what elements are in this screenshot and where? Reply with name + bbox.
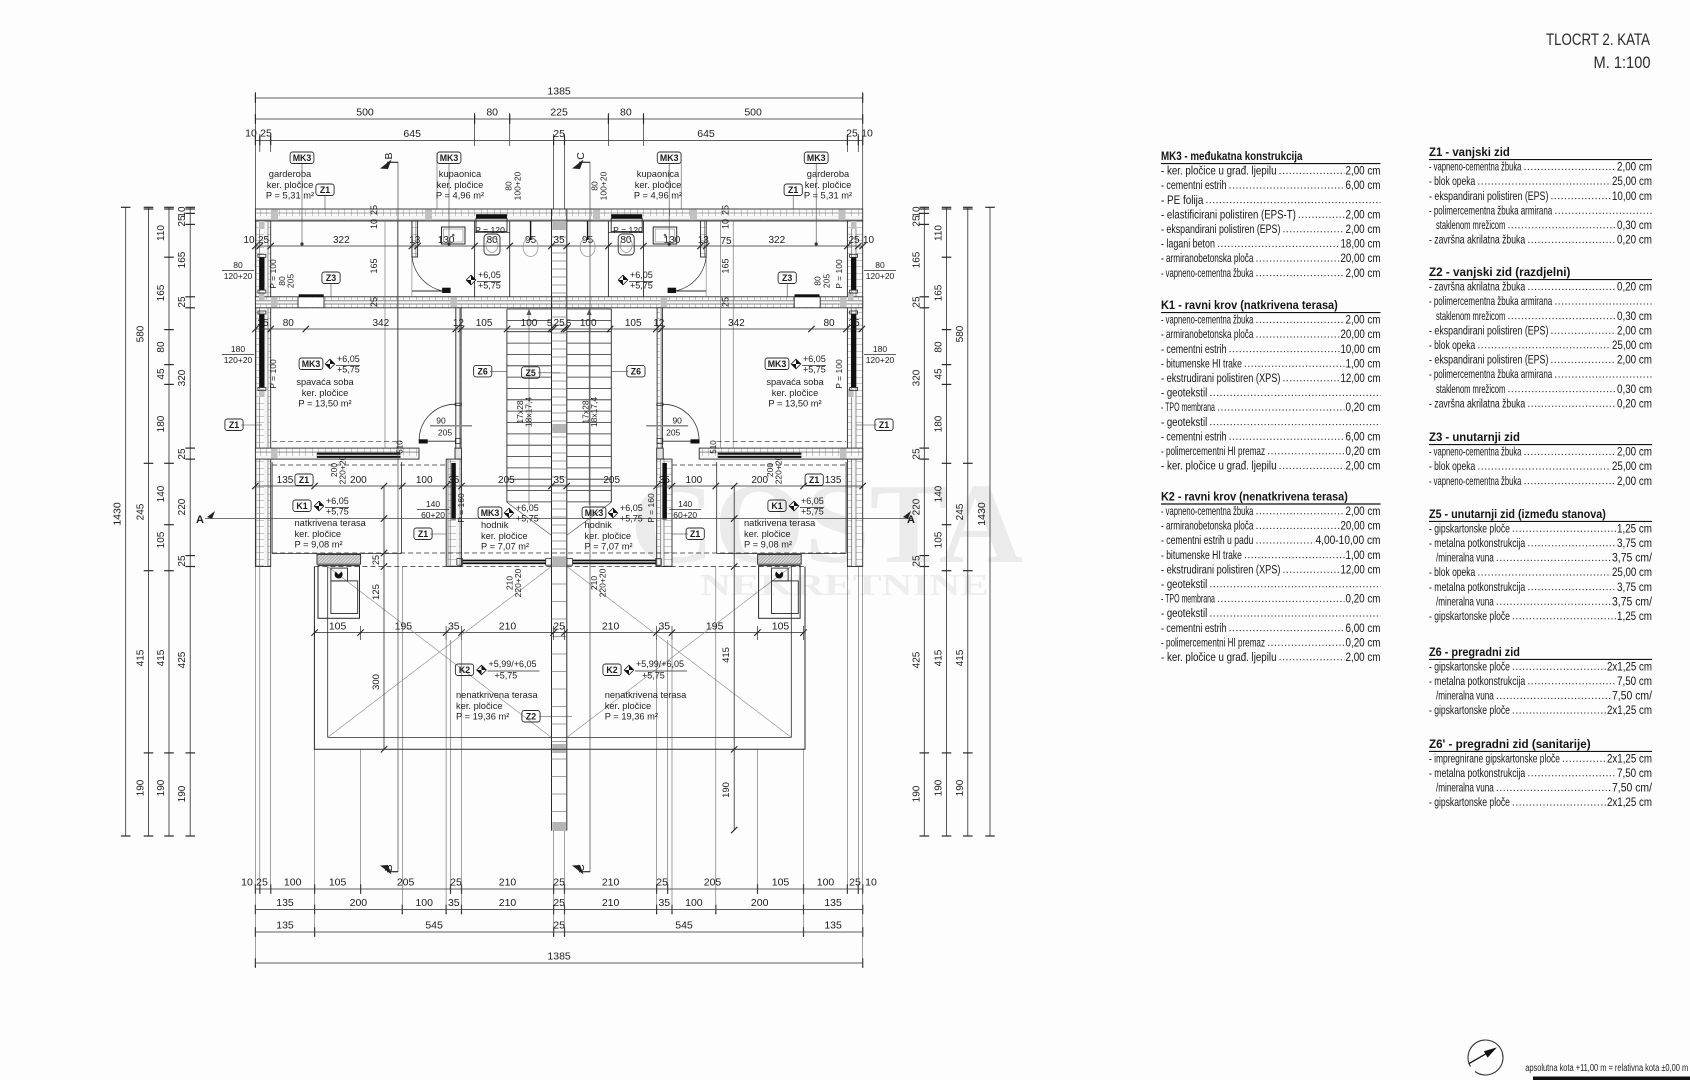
svg-text:Z1 - vanjski zid: Z1 - vanjski zid <box>1429 145 1510 159</box>
svg-text:K1 - ravni krov (natkrivena te: K1 - ravni krov (natkrivena terasa) <box>1161 298 1338 312</box>
svg-text:2,00 cm: 2,00 cm <box>1346 222 1381 236</box>
svg-text:- armiranobetonska ploča: - armiranobetonska ploča <box>1161 251 1254 265</box>
svg-text:25: 25 <box>260 128 272 140</box>
svg-text:25: 25 <box>846 128 858 140</box>
svg-text:342: 342 <box>728 318 745 329</box>
svg-text:105: 105 <box>625 318 642 329</box>
svg-text:135: 135 <box>276 920 294 932</box>
svg-text:P = 19,36 m²: P = 19,36 m² <box>605 712 658 722</box>
svg-text:staklenom mrežicom: staklenom mrežicom <box>1436 309 1505 323</box>
svg-text:M. 1:100: M. 1:100 <box>1594 54 1651 72</box>
svg-text:20,00 cm: 20,00 cm <box>1341 519 1381 533</box>
svg-text:20,00 cm: 20,00 cm <box>1341 327 1381 341</box>
svg-text:ker. pločice: ker. pločice <box>302 388 349 398</box>
svg-text:2,00 cm: 2,00 cm <box>1346 266 1381 280</box>
svg-text:165: 165 <box>911 251 922 268</box>
svg-text:P = 4,96 m²: P = 4,96 m² <box>436 191 484 201</box>
svg-text:90: 90 <box>436 416 446 426</box>
svg-text:210: 210 <box>499 620 517 632</box>
svg-text:- elastificirani polistiren (E: - elastificirani polistiren (EPS-T) <box>1161 207 1296 221</box>
svg-text:- završna akrilatna žbuka: - završna akrilatna žbuka <box>1429 233 1525 247</box>
svg-text:+6,05: +6,05 <box>630 270 653 280</box>
svg-text:510: 510 <box>396 440 405 454</box>
svg-text:135: 135 <box>277 475 294 486</box>
svg-text:35: 35 <box>448 897 460 909</box>
svg-text:45: 45 <box>156 368 167 380</box>
svg-text:P = 120: P = 120 <box>613 225 643 235</box>
svg-text:140: 140 <box>678 499 692 509</box>
svg-text:Z5: Z5 <box>526 368 536 378</box>
svg-text:1,25 cm: 1,25 cm <box>1617 609 1652 623</box>
svg-text:100: 100 <box>415 897 433 909</box>
svg-text:100: 100 <box>580 318 597 329</box>
svg-text:+6,05: +6,05 <box>516 503 539 513</box>
svg-text:140: 140 <box>426 499 440 509</box>
svg-text:2,00 cm: 2,00 cm <box>1617 474 1652 488</box>
svg-text:+5,99/+6,05: +5,99/+6,05 <box>489 659 537 669</box>
svg-text:322: 322 <box>768 235 785 246</box>
svg-text:MK3: MK3 <box>768 359 787 369</box>
svg-text:ker. pločice: ker. pločice <box>744 529 791 539</box>
svg-text:P = 19,36 m²: P = 19,36 m² <box>456 712 509 722</box>
svg-text:Z3 - unutarnji zid: Z3 - unutarnji zid <box>1429 430 1520 444</box>
svg-text:/mineralna vuna: /mineralna vuna <box>1436 781 1494 795</box>
svg-text:1,00 cm: 1,00 cm <box>1346 548 1381 562</box>
svg-text:190: 190 <box>721 782 732 798</box>
svg-text:/mineralna vuna: /mineralna vuna <box>1436 594 1494 608</box>
svg-text:5: 5 <box>566 318 571 329</box>
svg-text:25: 25 <box>553 897 565 909</box>
svg-text:- geotekstil: - geotekstil <box>1161 577 1207 591</box>
svg-text:- lagani beton: - lagani beton <box>1161 237 1215 251</box>
svg-text:140: 140 <box>934 485 945 502</box>
svg-text:hodnik: hodnik <box>481 520 509 530</box>
svg-text:220: 220 <box>911 498 922 515</box>
svg-text:100: 100 <box>685 897 703 909</box>
svg-text:2,00 cm: 2,00 cm <box>1617 445 1652 459</box>
svg-text:3,75 cm/: 3,75 cm/ <box>1612 551 1653 565</box>
svg-text:- geotekstil: - geotekstil <box>1161 386 1207 400</box>
svg-text:80: 80 <box>620 107 632 119</box>
svg-text:Z1: Z1 <box>229 420 239 430</box>
svg-text:125: 125 <box>371 584 382 600</box>
svg-text:2,00 cm: 2,00 cm <box>1346 164 1381 178</box>
svg-text:120+20: 120+20 <box>866 355 895 365</box>
svg-text:1430: 1430 <box>112 502 124 526</box>
svg-text:MK3 - međukatna konstrukcija: MK3 - međukatna konstrukcija <box>1161 149 1302 163</box>
svg-text:+5,75: +5,75 <box>326 507 349 517</box>
svg-text:2,00 cm: 2,00 cm <box>1346 207 1381 221</box>
svg-text:- ekspandirani polistiren (EPS: - ekspandirani polistiren (EPS) <box>1429 353 1548 367</box>
svg-text:+5,75: +5,75 <box>630 281 653 291</box>
svg-text:- TPO membrana: - TPO membrana <box>1161 400 1215 414</box>
svg-text:- završna akrilatna žbuka: - završna akrilatna žbuka <box>1429 396 1525 410</box>
svg-text:205: 205 <box>438 428 452 438</box>
svg-text:+5,75: +5,75 <box>642 671 665 681</box>
svg-text:100: 100 <box>817 877 835 889</box>
svg-text:+6,05: +6,05 <box>337 354 360 364</box>
svg-text:- gipskartonske ploče: - gipskartonske ploče <box>1429 659 1510 673</box>
svg-text:Z3: Z3 <box>326 273 336 283</box>
svg-text:P = 5,31 m²: P = 5,31 m² <box>266 191 314 201</box>
svg-text:ker. pločice: ker. pločice <box>585 531 632 541</box>
svg-text:- polimercementna žbuka armira: - polimercementna žbuka armirana <box>1429 367 1552 381</box>
svg-text:P = 4,96 m²: P = 4,96 m² <box>634 191 682 201</box>
svg-text:35: 35 <box>849 318 861 329</box>
svg-text:25,00 cm: 25,00 cm <box>1612 565 1652 579</box>
svg-text:100+20: 100+20 <box>513 171 523 200</box>
svg-text:Z2 - vanjski zid (razdjelni): Z2 - vanjski zid (razdjelni) <box>1429 265 1570 279</box>
svg-text:110: 110 <box>156 225 167 241</box>
svg-text:35: 35 <box>554 235 566 246</box>
svg-text:Z2: Z2 <box>526 712 536 722</box>
svg-text:P = 120: P = 120 <box>475 225 505 235</box>
svg-text:MK3: MK3 <box>807 153 826 163</box>
svg-text:+5,75: +5,75 <box>803 365 826 375</box>
svg-text:- blok opeka: - blok opeka <box>1429 174 1475 188</box>
svg-text:6,00 cm: 6,00 cm <box>1346 178 1381 192</box>
svg-text:- vapneno-cementna žbuka: - vapneno-cementna žbuka <box>1161 313 1254 327</box>
svg-text:ker. pločice: ker. pločice <box>605 701 652 711</box>
svg-text:P = 160: P = 160 <box>456 493 466 523</box>
svg-text:100: 100 <box>416 475 433 486</box>
svg-text:180: 180 <box>873 344 887 354</box>
svg-text:7,50 cm/: 7,50 cm/ <box>1612 781 1653 795</box>
svg-text:- vapneno-cementna žbuka: - vapneno-cementna žbuka <box>1429 474 1522 488</box>
svg-text:10: 10 <box>721 219 731 229</box>
svg-text:P = 160: P = 160 <box>646 493 656 523</box>
svg-text:MK3: MK3 <box>302 359 321 369</box>
svg-text:P = 100: P = 100 <box>268 359 278 389</box>
svg-text:320: 320 <box>177 369 188 386</box>
svg-text:P = 7,07 m²: P = 7,07 m² <box>481 542 529 552</box>
svg-text:0,30 cm: 0,30 cm <box>1617 309 1652 323</box>
svg-text:80: 80 <box>283 318 295 329</box>
svg-text:415: 415 <box>156 649 167 666</box>
svg-text:- bitumenske HI trake: - bitumenske HI trake <box>1161 548 1242 562</box>
svg-text:0,30 cm: 0,30 cm <box>1617 382 1652 396</box>
svg-text:+5,75: +5,75 <box>337 365 360 375</box>
svg-text:25: 25 <box>177 555 188 567</box>
svg-text:25: 25 <box>369 205 379 215</box>
svg-text:100: 100 <box>686 475 703 486</box>
svg-text:- TPO membrana: - TPO membrana <box>1161 592 1215 606</box>
svg-text:+5,75: +5,75 <box>620 514 643 524</box>
svg-text:105: 105 <box>476 318 493 329</box>
svg-text:2,00 cm: 2,00 cm <box>1617 323 1652 337</box>
svg-text:K1: K1 <box>771 501 782 511</box>
svg-text:80: 80 <box>486 107 498 119</box>
svg-text:500: 500 <box>356 107 374 119</box>
svg-text:13: 13 <box>409 235 421 246</box>
svg-text:10: 10 <box>865 877 877 889</box>
svg-text:ker. pločice: ker. pločice <box>456 701 503 711</box>
svg-text:190: 190 <box>177 785 188 802</box>
svg-text:- metalna potkonstrukcija: - metalna potkonstrukcija <box>1429 536 1525 550</box>
svg-text:- gipskartonske ploče: - gipskartonske ploče <box>1429 703 1510 717</box>
svg-text:hodnik: hodnik <box>585 520 613 530</box>
svg-text:105: 105 <box>329 877 347 889</box>
svg-text:0,30 cm: 0,30 cm <box>1617 218 1652 232</box>
svg-text:425: 425 <box>177 651 188 668</box>
svg-text:135: 135 <box>824 897 842 909</box>
svg-text:25: 25 <box>177 448 188 460</box>
svg-text:MK3: MK3 <box>585 508 604 518</box>
svg-text:6,00 cm: 6,00 cm <box>1346 429 1381 443</box>
svg-text:25: 25 <box>911 555 922 567</box>
svg-text:180: 180 <box>231 344 245 354</box>
svg-text:18x17,4: 18x17,4 <box>589 397 599 428</box>
svg-text:190: 190 <box>911 785 922 802</box>
svg-text:25,00 cm: 25,00 cm <box>1612 459 1652 473</box>
svg-text:80: 80 <box>620 235 632 246</box>
svg-text:165: 165 <box>156 284 167 301</box>
svg-text:425: 425 <box>911 651 922 668</box>
svg-text:3,75 cm/: 3,75 cm/ <box>1612 594 1653 608</box>
svg-text:2x1,25 cm: 2x1,25 cm <box>1607 659 1652 673</box>
svg-text:12: 12 <box>453 318 465 329</box>
svg-text:35: 35 <box>658 620 670 632</box>
svg-text:- geotekstil: - geotekstil <box>1161 606 1207 620</box>
svg-text:80: 80 <box>875 260 885 270</box>
svg-text:1430: 1430 <box>976 502 988 526</box>
svg-text:195: 195 <box>395 620 413 632</box>
svg-text:180: 180 <box>934 415 945 432</box>
svg-text:220+20: 220+20 <box>774 455 784 484</box>
svg-text:- ekstrudirani polistiren (XPS: - ekstrudirani polistiren (XPS) <box>1161 562 1280 576</box>
svg-text:18,00 cm: 18,00 cm <box>1341 237 1381 251</box>
svg-text:natkrivena terasa: natkrivena terasa <box>295 518 367 528</box>
svg-text:415: 415 <box>934 649 945 666</box>
svg-text:300: 300 <box>371 674 382 690</box>
svg-text:Z1: Z1 <box>418 529 428 539</box>
svg-text:+6,05: +6,05 <box>326 496 349 506</box>
svg-text:25: 25 <box>553 920 565 932</box>
svg-text:Z1: Z1 <box>320 185 330 195</box>
svg-text:- cementni estrih: - cementni estrih <box>1161 429 1227 443</box>
svg-text:645: 645 <box>697 128 715 140</box>
svg-text:545: 545 <box>675 920 693 932</box>
svg-text:180: 180 <box>156 415 167 432</box>
svg-text:320: 320 <box>911 369 922 386</box>
svg-text:105: 105 <box>772 620 790 632</box>
svg-text:140: 140 <box>156 485 167 502</box>
svg-text:C: C <box>575 152 587 160</box>
svg-text:Z1: Z1 <box>690 529 700 539</box>
svg-text:- armiranobetonska ploča: - armiranobetonska ploča <box>1161 327 1254 341</box>
svg-text:K2 - ravni krov (nenatkrivena: K2 - ravni krov (nenatkrivena terasa) <box>1161 489 1348 503</box>
svg-text:220+20: 220+20 <box>513 568 523 597</box>
svg-text:510: 510 <box>709 440 718 454</box>
svg-text:12: 12 <box>653 318 665 329</box>
svg-text:210: 210 <box>499 897 517 909</box>
svg-text:165: 165 <box>721 258 731 273</box>
svg-text:7,50 cm/: 7,50 cm/ <box>1612 689 1653 703</box>
svg-text:B: B <box>383 152 395 159</box>
svg-text:200: 200 <box>350 897 368 909</box>
svg-text:spavaća soba: spavaća soba <box>296 377 354 387</box>
svg-text:K2: K2 <box>606 665 617 675</box>
svg-text:7,50 cm: 7,50 cm <box>1617 674 1652 688</box>
svg-text:210: 210 <box>602 897 620 909</box>
svg-text:120+20: 120+20 <box>866 271 895 281</box>
svg-text:210: 210 <box>602 877 620 889</box>
svg-text:2,00 cm: 2,00 cm <box>1346 650 1381 664</box>
svg-text:25: 25 <box>256 877 268 889</box>
svg-text:0,20 cm: 0,20 cm <box>1617 233 1652 247</box>
svg-text:35: 35 <box>659 475 671 486</box>
svg-text:Z3: Z3 <box>782 273 792 283</box>
svg-text:staklenom mrežicom: staklenom mrežicom <box>1436 382 1505 396</box>
svg-text:K1: K1 <box>296 501 307 511</box>
svg-text:2,00 cm: 2,00 cm <box>1617 160 1652 174</box>
svg-text:- PE folija: - PE folija <box>1161 193 1204 207</box>
svg-text:45: 45 <box>934 368 945 380</box>
svg-text:205: 205 <box>397 877 415 889</box>
svg-text:kupaonica: kupaonica <box>439 169 482 179</box>
svg-text:staklenom mrežicom: staklenom mrežicom <box>1436 218 1505 232</box>
svg-text:205: 205 <box>821 274 831 288</box>
svg-text:- blok opeka: - blok opeka <box>1429 459 1475 473</box>
svg-text:135: 135 <box>824 920 842 932</box>
svg-text:6,00 cm: 6,00 cm <box>1346 621 1381 635</box>
svg-text:200: 200 <box>751 897 769 909</box>
svg-text:P = 13,50 m²: P = 13,50 m² <box>298 399 351 409</box>
svg-text:- ker. pločice u građ. ljepilu: - ker. pločice u građ. ljepilu <box>1161 164 1277 178</box>
svg-text:342: 342 <box>372 318 389 329</box>
svg-text:0,20 cm: 0,20 cm <box>1617 280 1652 294</box>
svg-text:25,00 cm: 25,00 cm <box>1612 338 1652 352</box>
svg-text:/mineralna vuna: /mineralna vuna <box>1436 551 1494 565</box>
svg-text:- ekspandirani polistiren (EPS: - ekspandirani polistiren (EPS) <box>1429 189 1548 203</box>
svg-text:500: 500 <box>744 107 762 119</box>
svg-text:75: 75 <box>720 236 732 247</box>
svg-text:- metalna potkonstrukcija: - metalna potkonstrukcija <box>1429 674 1525 688</box>
svg-text:K2: K2 <box>459 665 470 675</box>
svg-text:ker. pločice: ker. pločice <box>295 529 342 539</box>
svg-text:- bitumenske HI trake: - bitumenske HI trake <box>1161 356 1242 370</box>
svg-text:205: 205 <box>704 877 722 889</box>
svg-text:- blok opeka: - blok opeka <box>1429 338 1475 352</box>
svg-text:- vapneno-cementna žbuka: - vapneno-cementna žbuka <box>1429 160 1522 174</box>
svg-text:165: 165 <box>369 258 379 273</box>
svg-text:- ekspandirani polistiren (EPS: - ekspandirani polistiren (EPS) <box>1161 222 1280 236</box>
svg-text:Z6: Z6 <box>631 366 641 376</box>
svg-text:ker. pločice: ker. pločice <box>481 531 528 541</box>
svg-text:1385: 1385 <box>547 86 571 98</box>
svg-text:+6,05: +6,05 <box>620 503 643 513</box>
svg-text:P = 100: P = 100 <box>834 359 844 389</box>
svg-text:35: 35 <box>448 620 460 632</box>
svg-text:105: 105 <box>772 877 790 889</box>
svg-text:80: 80 <box>233 260 243 270</box>
svg-text:ker. pločice: ker. pločice <box>772 388 819 398</box>
svg-text:120+20: 120+20 <box>224 355 253 365</box>
svg-text:- metalna potkonstrukcija: - metalna potkonstrukcija <box>1429 580 1525 594</box>
svg-text:35: 35 <box>554 475 566 486</box>
svg-text:10,00 cm: 10,00 cm <box>1612 189 1652 203</box>
svg-text:- gipskartonske ploče: - gipskartonske ploče <box>1429 795 1510 809</box>
svg-text:210: 210 <box>499 877 517 889</box>
svg-text:NEKRETNINE: NEKRETNINE <box>700 567 989 602</box>
svg-text:1,00 cm: 1,00 cm <box>1346 356 1381 370</box>
svg-text:415: 415 <box>136 649 147 666</box>
svg-text:60+20: 60+20 <box>673 510 697 520</box>
svg-text:3,75 cm: 3,75 cm <box>1617 580 1652 594</box>
svg-text:205: 205 <box>666 428 680 438</box>
svg-text:25: 25 <box>258 235 270 246</box>
svg-text:0,20 cm: 0,20 cm <box>1346 635 1381 649</box>
svg-text:25: 25 <box>369 297 379 307</box>
svg-text:Z1: Z1 <box>879 420 889 430</box>
svg-text:10: 10 <box>369 219 379 229</box>
svg-text:25: 25 <box>553 620 565 632</box>
svg-text:80: 80 <box>156 341 167 353</box>
svg-text:2x1,25 cm: 2x1,25 cm <box>1607 795 1652 809</box>
svg-text:- geotekstil: - geotekstil <box>1161 415 1207 429</box>
svg-text:kupaonica: kupaonica <box>637 169 680 179</box>
svg-text:+5,75: +5,75 <box>495 671 518 681</box>
svg-text:- ekstrudirani polistiren (XPS: - ekstrudirani polistiren (XPS) <box>1161 371 1280 385</box>
svg-text:25: 25 <box>450 877 462 889</box>
svg-text:25: 25 <box>177 296 188 308</box>
svg-text:7,50 cm: 7,50 cm <box>1617 766 1652 780</box>
svg-text:- gipskartonske ploče: - gipskartonske ploče <box>1429 521 1510 535</box>
svg-text:90: 90 <box>672 416 682 426</box>
svg-text:245: 245 <box>955 503 966 520</box>
svg-text:105: 105 <box>934 531 945 548</box>
svg-text:35: 35 <box>658 897 670 909</box>
svg-text:+5,75: +5,75 <box>801 507 824 517</box>
svg-text:- završna akrilatna žbuka: - završna akrilatna žbuka <box>1429 280 1525 294</box>
svg-text:25: 25 <box>553 877 565 889</box>
svg-text:25: 25 <box>848 235 860 246</box>
svg-text:220+20: 220+20 <box>598 568 608 597</box>
svg-text:P = 13,50 m²: P = 13,50 m² <box>768 399 821 409</box>
svg-text:100: 100 <box>521 318 538 329</box>
svg-text:garderoba: garderoba <box>269 169 312 179</box>
svg-text:25,00 cm: 25,00 cm <box>1612 174 1652 188</box>
svg-text:80: 80 <box>934 341 945 353</box>
svg-text:25: 25 <box>553 128 565 140</box>
svg-text:645: 645 <box>403 128 421 140</box>
svg-text:80: 80 <box>823 318 835 329</box>
svg-text:- polimercementni HI premaz: - polimercementni HI premaz <box>1161 444 1265 458</box>
svg-text:165: 165 <box>934 284 945 301</box>
svg-text:165: 165 <box>177 251 188 268</box>
svg-text:2x1,25 cm: 2x1,25 cm <box>1607 703 1652 717</box>
svg-text:25: 25 <box>721 205 731 215</box>
svg-text:- blok opeka: - blok opeka <box>1429 565 1475 579</box>
svg-text:205: 205 <box>286 274 296 288</box>
svg-text:+5,99/+6,05: +5,99/+6,05 <box>636 659 684 669</box>
svg-text:1,25 cm: 1,25 cm <box>1617 521 1652 535</box>
svg-text:20,00 cm: 20,00 cm <box>1341 251 1381 265</box>
svg-text:0,20 cm: 0,20 cm <box>1346 592 1381 606</box>
svg-text:P = 9,08 m²: P = 9,08 m² <box>744 540 792 550</box>
svg-text:Z6' - pregradni zid (sanitarij: Z6' - pregradni zid (sanitarije) <box>1429 737 1591 751</box>
svg-text:100+20: 100+20 <box>599 171 609 200</box>
svg-text:0,20 cm: 0,20 cm <box>1346 400 1381 414</box>
svg-text:210: 210 <box>602 620 620 632</box>
svg-text:2,00 cm: 2,00 cm <box>1346 313 1381 327</box>
svg-text:ker. pločice: ker. pločice <box>267 180 314 190</box>
svg-text:110: 110 <box>934 225 945 241</box>
svg-text:195: 195 <box>706 620 724 632</box>
svg-text:MK3: MK3 <box>660 153 679 163</box>
svg-text:105: 105 <box>156 531 167 548</box>
svg-text:nenatkrivena terasa: nenatkrivena terasa <box>605 690 687 700</box>
